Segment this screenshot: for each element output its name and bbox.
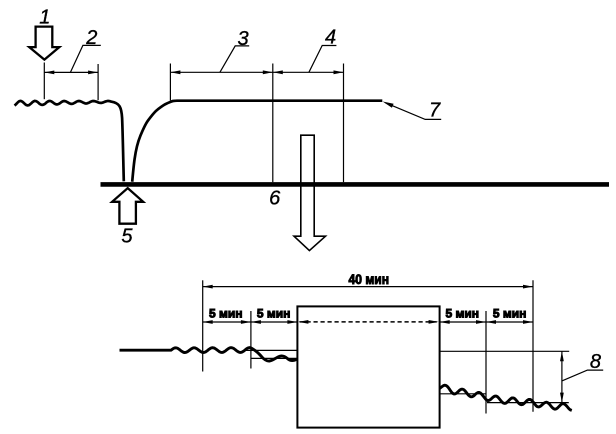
top reference line for dimension 8: [440, 350, 570, 352]
left bottom trace: flat + wavy + step down: [120, 348, 298, 361]
svg-text:40 мин: 40 мин: [349, 271, 390, 287]
dim-4 left arrowhead: [273, 70, 283, 74]
thin reference line level 1 (left, continues into box): [245, 349, 297, 351]
arrow 1 (hollow down arrow): [29, 27, 59, 60]
extension line: 40min right / 5min right outer: [532, 280, 534, 412]
svg-text:5: 5: [121, 226, 133, 248]
dimension 8 vertical line with arrowheads: [561, 351, 563, 402]
svg-text:6: 6: [269, 188, 281, 210]
svg-text:5 мин: 5 мин: [446, 307, 480, 321]
svg-text:5 мин: 5 мин: [257, 307, 291, 321]
label 7 with leader and arrowhead pointing at trace end: [383, 100, 442, 122]
dimension line 3 and 4: [170, 71, 343, 73]
dimension line 5 min right pair: [440, 321, 533, 323]
dimension line 40 min: [203, 286, 533, 288]
label 8 with leader: [562, 351, 603, 381]
extension line: 5min right middle: [485, 311, 487, 414]
top trace (signal curve): [15, 101, 383, 182]
dim-2 left arrowhead: [44, 71, 54, 75]
svg-text:7: 7: [429, 100, 441, 122]
arrow 5 (hollow up arrow): [112, 188, 143, 224]
extension line right of dimension 4 (down to baseline): [343, 64, 345, 183]
extension line 6 (middle, down to baseline): [272, 64, 274, 183]
baseline (thick ground line): [101, 182, 610, 187]
svg-text:5 мин: 5 мин: [493, 307, 527, 321]
svg-text:5 мин: 5 мин: [209, 307, 243, 321]
dim-3 right arrowhead: [263, 70, 273, 74]
extension line below arrow 1 / left of dimension 2: [43, 63, 45, 100]
label 4 with leader: [309, 27, 337, 73]
40min right arrowhead: [523, 285, 533, 289]
right bottom trace (descending wavy): [440, 385, 572, 410]
dimension line 5 min left pair: [203, 321, 298, 323]
label 2 with leader: [70, 27, 100, 72]
thin reference line level 2 (left step): [251, 357, 298, 359]
40min left arrowhead: [203, 285, 213, 289]
extension line right of dimension 2: [97, 64, 99, 100]
svg-text:3: 3: [237, 28, 248, 50]
dim-4 right arrowhead: [334, 70, 344, 74]
extension line: 5min left middle: [250, 311, 252, 369]
svg-text:1: 1: [39, 7, 50, 29]
dim-2 right arrowhead: [88, 71, 98, 75]
dashed line with arrows inside box: [300, 321, 438, 323]
dim-3 left arrowhead: [170, 70, 180, 74]
thin reference line right level 1: [440, 393, 486, 395]
extension line left of dimension 3: [169, 64, 171, 101]
box (test chamber rectangle): [297, 306, 439, 427]
extension line: 40min left / 5min left outer: [202, 280, 204, 371]
dimension line 2: [44, 71, 98, 73]
big hollow down arrow (transfer arrow): [294, 135, 326, 250]
thin reference line right level 2 / bottom reference for dimension 8: [487, 402, 569, 404]
label 3 with leader: [220, 28, 249, 72]
